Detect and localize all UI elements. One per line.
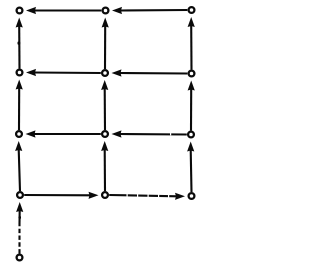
arrowhead into r3c1 xyxy=(15,141,22,151)
scan break on wire r4c2 to r4c3 xyxy=(168,194,169,198)
wire r3c3 to r2c3 xyxy=(190,89,192,131)
wire r3c2 to r3c1 xyxy=(34,133,101,135)
arrowhead into r2c2 xyxy=(101,80,108,90)
wire r3c3 to r3c2 xyxy=(120,133,187,136)
scan break on wire r4c2 to r4c3 xyxy=(127,194,128,198)
node r3c1 xyxy=(16,131,22,137)
arrowhead into r1c3 xyxy=(188,17,195,27)
scan break on wire r4c2 to r4c3 xyxy=(158,194,159,198)
arrowhead into r4c3 xyxy=(175,193,185,200)
node r2c1 xyxy=(17,70,23,76)
arrowhead into r3c2 xyxy=(101,141,108,151)
wire r4c1 to r3c1 xyxy=(19,149,20,191)
node r2c3 xyxy=(189,71,195,77)
node r4c3 xyxy=(189,193,195,199)
arrowhead into r1c2 xyxy=(112,7,122,14)
wire r4c2 to r4c3 xyxy=(109,195,177,196)
wire r2c3 to r1c3 xyxy=(190,25,192,70)
wire bot to r4c1 solid part xyxy=(18,210,20,224)
wire r1c2 to r1c1 xyxy=(34,9,101,11)
wire bot to r4c1 dashed part xyxy=(18,224,20,254)
scan blob on wire r2c1 to r1c1 xyxy=(18,42,21,45)
wire r4c2 to r3c2 xyxy=(104,149,106,191)
node r1c3 xyxy=(189,7,195,13)
wire r4c1 to r4c2 xyxy=(24,194,90,196)
arrowhead into r1c2 xyxy=(102,18,109,28)
arrowhead into r3c2 xyxy=(112,130,122,137)
node r1c1 xyxy=(17,8,23,14)
node r1c2 xyxy=(103,8,109,14)
arrowhead into r2c3 xyxy=(188,81,195,91)
wire r2c1 to r1c1 xyxy=(18,26,20,69)
scan thin spot on wire r3c3 to r3c2 xyxy=(170,133,171,135)
node r3c3 xyxy=(188,132,194,138)
wire r3c1 to r2c1 xyxy=(18,88,20,131)
wire r3c2 to r2c2 xyxy=(104,88,106,130)
scan blob on wire bot to r4c1 xyxy=(18,216,21,219)
node r3c2 xyxy=(102,131,108,137)
scan break on wire r4c2 to r4c3 xyxy=(148,194,149,198)
scan break on wire r4c2 to r4c3 xyxy=(137,194,138,198)
wire r2c2 to r1c2 xyxy=(104,26,106,70)
arrowhead into r2c1 xyxy=(26,69,36,76)
node bot xyxy=(17,255,23,261)
wire r2c3 to r2c2 xyxy=(120,72,188,75)
arrowhead into r3c3 xyxy=(187,142,194,152)
node r4c1 xyxy=(17,192,23,198)
node r4c2 xyxy=(102,192,108,198)
arrowhead into r4c1 xyxy=(16,202,23,212)
arrowhead into r2c2 xyxy=(112,69,122,76)
arrowhead into r4c2 xyxy=(89,192,99,199)
wire r2c2 to r2c1 xyxy=(34,71,101,74)
arrowhead into r3c1 xyxy=(26,130,36,137)
wire r1c3 to r1c2 xyxy=(120,9,187,12)
wire r4c3 to r3c3 xyxy=(190,150,193,193)
node r2c2 xyxy=(102,70,108,76)
arrowhead into r2c1 xyxy=(16,80,23,90)
arrowhead into r1c1 xyxy=(16,18,23,28)
arrowhead into r1c1 xyxy=(26,7,36,14)
